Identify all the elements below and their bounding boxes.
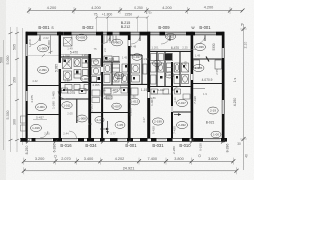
svg-text:2-199: 2-199: [154, 120, 162, 124]
svg-text:1.86: 1.86: [150, 96, 156, 100]
svg-text:17.50: 17.50: [91, 59, 98, 63]
svg-text:1-203: 1-203: [90, 104, 94, 112]
svg-text:4.48: 4.48: [131, 45, 137, 49]
svg-text:4-075: 4-075: [67, 91, 75, 95]
svg-text:2.055: 2.055: [93, 83, 100, 87]
svg-text:B-001: B-001: [125, 143, 137, 148]
svg-text:6-230: 6-230: [199, 143, 203, 151]
svg-text:1.700: 1.700: [63, 54, 70, 58]
svg-text:1.3: 1.3: [88, 122, 92, 126]
svg-text:1-403: 1-403: [110, 89, 118, 93]
svg-text:3.800: 3.800: [174, 157, 184, 161]
svg-text:2-032: 2-032: [178, 123, 186, 127]
svg-text:3.600: 3.600: [208, 157, 218, 161]
svg-text:4.42: 4.42: [32, 79, 38, 83]
svg-text:2.203: 2.203: [129, 108, 133, 116]
svg-text:0-003: 0-003: [166, 73, 174, 77]
svg-text:0-006: 0-006: [81, 77, 89, 81]
svg-text:2.55: 2.55: [215, 69, 219, 75]
svg-text:0-007: 0-007: [113, 105, 121, 109]
svg-text:0-02: 0-02: [154, 62, 160, 66]
svg-text:8-286: 8-286: [226, 144, 230, 153]
svg-text:8-250: 8-250: [25, 146, 29, 155]
svg-text:1-017: 1-017: [133, 55, 141, 59]
svg-text:5.350: 5.350: [6, 111, 10, 120]
svg-text:0-005: 0-005: [115, 74, 123, 78]
svg-text:0.250: 0.250: [134, 6, 143, 10]
svg-text:4.250: 4.250: [233, 98, 237, 107]
svg-text:4-020: 4-020: [106, 58, 114, 62]
svg-text:0-003: 0-003: [113, 41, 121, 45]
svg-text:7.400: 7.400: [148, 157, 158, 161]
svg-text:B-009: B-009: [158, 25, 170, 30]
svg-text:2-19: 2-19: [210, 109, 216, 113]
svg-text:4.200: 4.200: [204, 6, 214, 10]
svg-text:5-420: 5-420: [152, 126, 156, 134]
svg-text:B-001: B-001: [38, 25, 50, 30]
svg-text:40: 40: [245, 154, 249, 158]
svg-text:1.30: 1.30: [173, 97, 177, 103]
svg-text:1.202: 1.202: [82, 53, 89, 57]
svg-text:4.200: 4.200: [162, 6, 172, 10]
svg-text:350: 350: [13, 77, 17, 83]
svg-text:300: 300: [13, 119, 17, 125]
svg-text:2-48: 2-48: [96, 118, 102, 122]
svg-text:3.200: 3.200: [35, 157, 45, 161]
svg-text:2250: 2250: [125, 13, 133, 17]
svg-text:2.05: 2.05: [44, 132, 50, 136]
svg-text:B-031: B-031: [152, 143, 164, 148]
svg-text:0-005: 0-005: [78, 36, 86, 40]
svg-text:5.385: 5.385: [54, 64, 58, 72]
svg-text:5330: 5330: [212, 43, 216, 50]
svg-text:1-290: 1-290: [52, 101, 56, 109]
svg-text:1.45: 1.45: [122, 56, 128, 60]
svg-text:4.200: 4.200: [47, 6, 57, 10]
svg-text:1-011: 1-011: [63, 103, 71, 107]
svg-text:1 s: 1 s: [233, 77, 237, 82]
svg-text:2-091: 2-091: [39, 68, 47, 72]
svg-text:1.49: 1.49: [67, 47, 73, 51]
svg-text:1-05: 1-05: [117, 123, 123, 127]
svg-text:1-013: 1-013: [131, 100, 139, 104]
svg-text:4.200: 4.200: [91, 6, 101, 10]
svg-text:4-022: 4-022: [157, 88, 165, 92]
svg-text:2-001: 2-001: [37, 105, 45, 109]
svg-text:505: 505: [13, 44, 17, 50]
svg-text:B-212: B-212: [121, 25, 131, 29]
svg-text:2.10: 2.10: [244, 42, 248, 49]
svg-text:1-016: 1-016: [32, 126, 40, 130]
svg-text:+4: +4: [102, 89, 106, 93]
svg-text:1.9: 1.9: [203, 92, 207, 96]
svg-text:B-016: B-016: [60, 143, 72, 148]
svg-text:1.49: 1.49: [195, 54, 201, 58]
svg-text:6-286: 6-286: [53, 144, 57, 153]
svg-text:B-021: B-021: [206, 121, 215, 125]
svg-text:4-070.9: 4-070.9: [202, 78, 213, 82]
svg-text:2.25: 2.25: [182, 46, 188, 50]
svg-text:2.05: 2.05: [67, 112, 73, 116]
svg-text:7.200: 7.200: [67, 58, 71, 65]
svg-text:2.0: 2.0: [103, 48, 107, 52]
svg-text:1-036: 1-036: [196, 45, 204, 49]
svg-text:1-405: 1-405: [52, 91, 56, 99]
svg-text:1.77: 1.77: [110, 132, 116, 136]
svg-text:5-437: 5-437: [36, 116, 44, 120]
svg-text:2-280: 2-280: [172, 146, 176, 154]
svg-text:1.98: 1.98: [143, 57, 149, 61]
svg-text:B-002: B-002: [82, 25, 94, 30]
svg-text:7-430: 7-430: [193, 96, 197, 104]
svg-text:1.010: 1.010: [28, 39, 32, 47]
svg-text:1.98: 1.98: [64, 79, 70, 83]
svg-text:+1.800: +1.800: [102, 13, 113, 17]
svg-text:75: 75: [94, 12, 98, 16]
svg-text:24.921: 24.921: [123, 166, 135, 170]
svg-text:500: 500: [0, 57, 4, 63]
svg-text:3.400: 3.400: [84, 157, 94, 161]
svg-text:1-00: 1-00: [213, 133, 219, 137]
svg-text:1-008: 1-008: [78, 117, 86, 121]
svg-text:1-009: 1-009: [39, 47, 47, 51]
svg-text:B-001: B-001: [199, 25, 211, 30]
svg-text:5.050: 5.050: [6, 56, 10, 65]
svg-text:2.44: 2.44: [63, 132, 69, 136]
svg-text:2.070: 2.070: [61, 157, 71, 161]
svg-text:4.375: 4.375: [30, 95, 34, 103]
svg-text:7-420: 7-420: [173, 126, 177, 134]
svg-text:75: 75: [93, 47, 97, 51]
svg-text:B-010: B-010: [179, 143, 191, 148]
svg-text:5-470: 5-470: [70, 51, 78, 55]
svg-text:30: 30: [237, 142, 241, 146]
svg-text:1-198: 1-198: [141, 88, 149, 92]
svg-text:(75): (75): [146, 11, 151, 15]
svg-text:4.37: 4.37: [142, 117, 146, 123]
svg-text:B-034: B-034: [85, 143, 97, 148]
svg-text:4.202: 4.202: [115, 157, 125, 161]
svg-text:2-017: 2-017: [178, 101, 186, 105]
svg-text:2.02: 2.02: [43, 36, 49, 40]
svg-text:6-4.017: 6-4.017: [101, 96, 111, 100]
svg-text:1.201: 1.201: [152, 46, 159, 50]
svg-text:1-305: 1-305: [195, 66, 203, 70]
svg-text:0-022: 0-022: [167, 35, 175, 39]
svg-text:7.380: 7.380: [184, 61, 188, 69]
